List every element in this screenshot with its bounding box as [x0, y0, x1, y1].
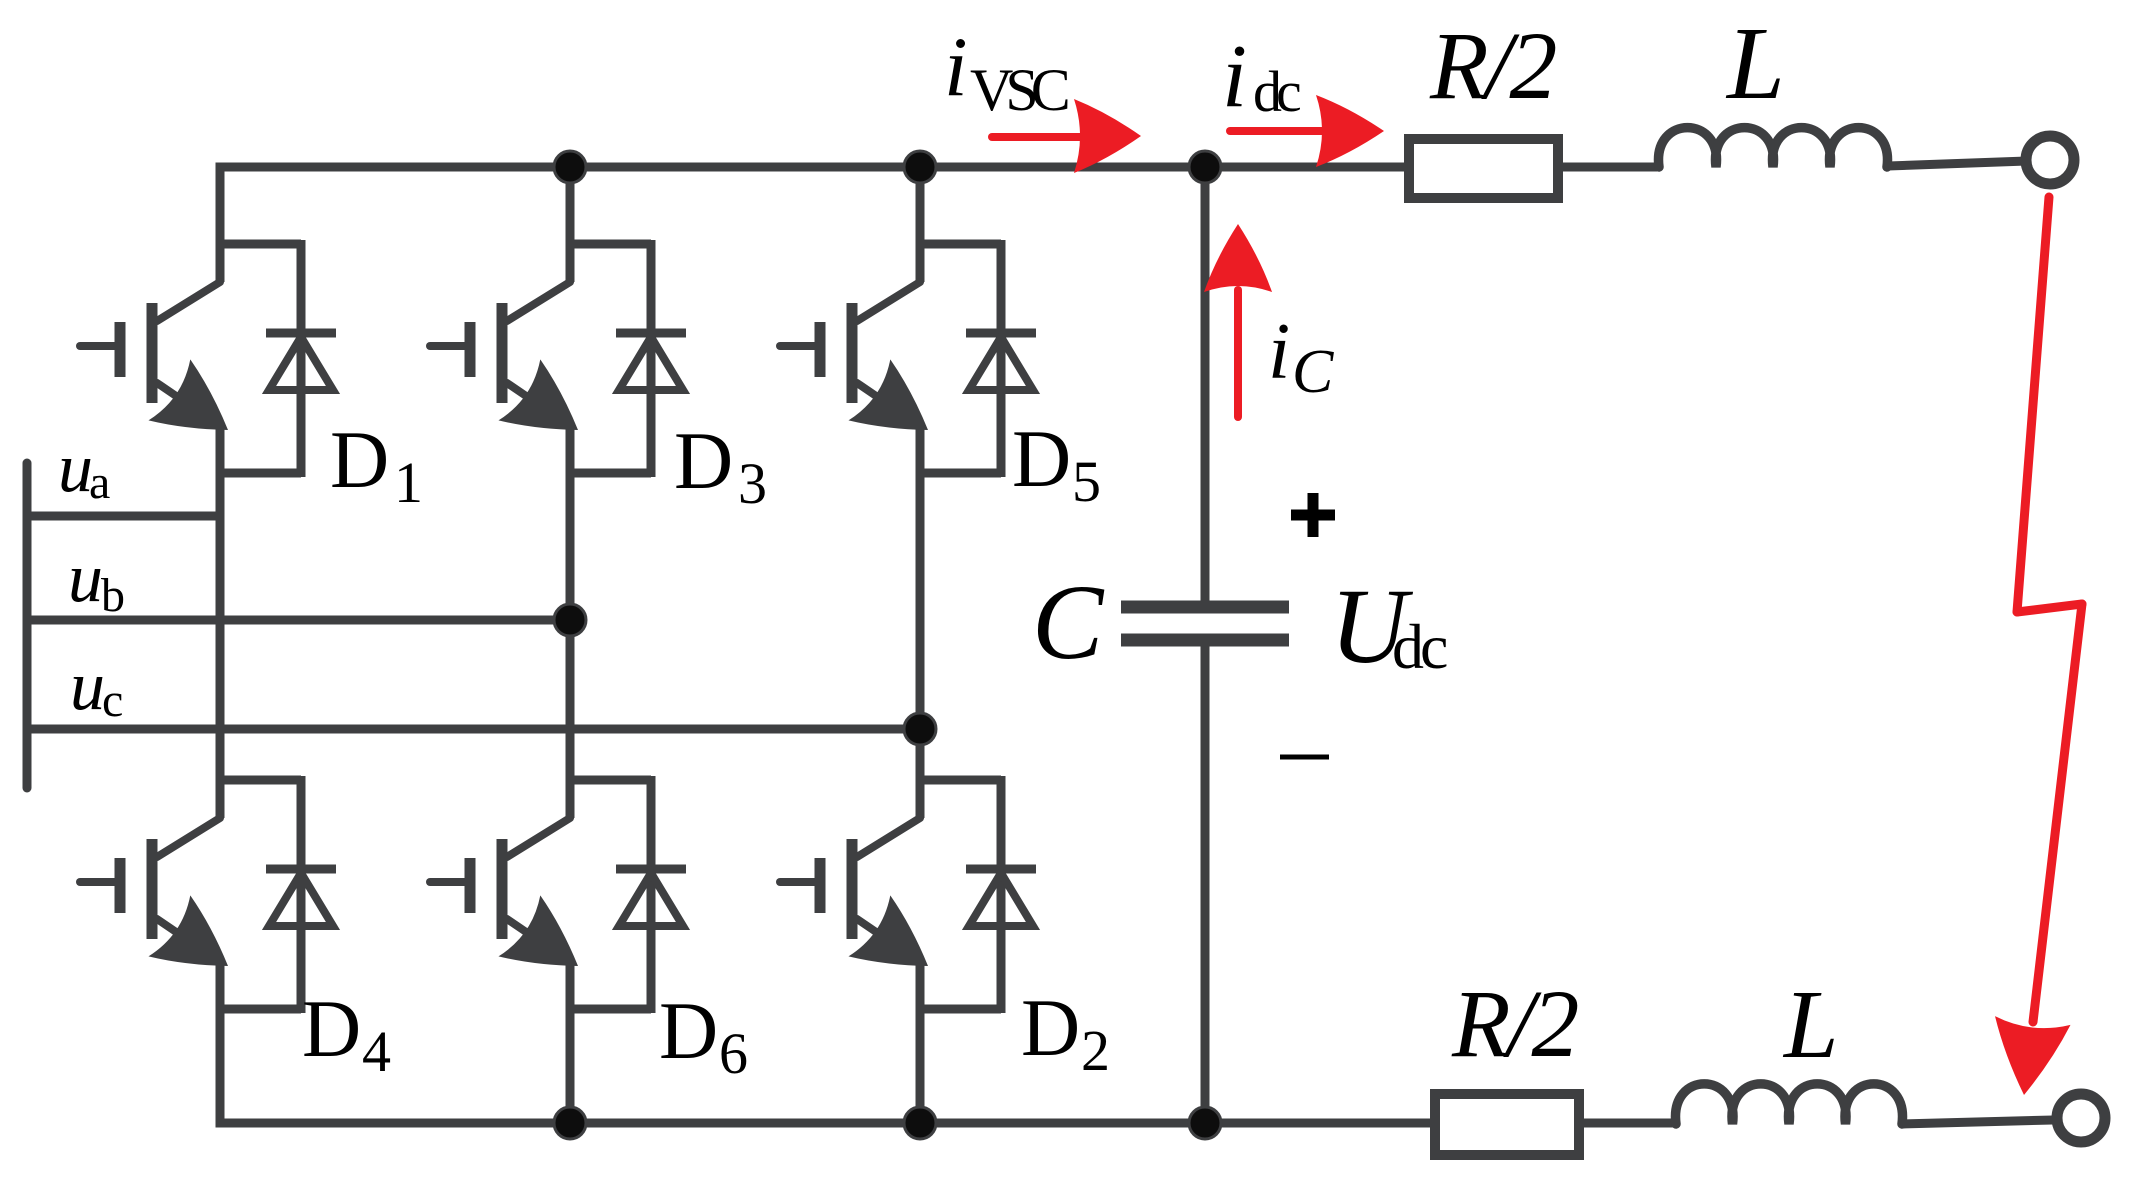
- wire: top rail resistor to inductor: [1563, 163, 1657, 172]
- svg-text:i: i: [1268, 308, 1290, 396]
- svg-text:dc: dc: [1392, 611, 1447, 682]
- label + polarity: [1291, 493, 1335, 537]
- transistor V1 (IGBT): [80, 282, 228, 473]
- wire: leg b upper vertical: [566, 167, 575, 282]
- svg-text:D: D: [330, 414, 389, 505]
- wire: capacitor bottom lead: [1201, 646, 1210, 1123]
- svg-text:D: D: [1021, 982, 1080, 1073]
- current arrow i_VSC: [992, 99, 1141, 173]
- svg-text:2: 2: [1081, 1018, 1110, 1083]
- wire: leg c middle vertical: [916, 473, 925, 818]
- diode D2 (freewheeling): [920, 776, 1036, 1013]
- wire: leg a middle vertical: [216, 473, 225, 818]
- svg-text:D: D: [674, 415, 733, 506]
- svg-text:C: C: [1032, 564, 1105, 682]
- diode D6 (freewheeling): [570, 776, 686, 1013]
- label D5: [1012, 413, 1101, 514]
- transistor V6 (IGBT): [430, 818, 578, 1009]
- junction phase b / leg b: [554, 604, 586, 636]
- svg-text:a: a: [89, 456, 110, 509]
- terminal: DC output +: [2026, 136, 2074, 184]
- svg-text:i: i: [1222, 27, 1247, 126]
- inductor L (bottom): [1676, 1084, 1903, 1124]
- fault arrow: lower stroke with head: [1995, 604, 2082, 1095]
- svg-text:b: b: [101, 569, 125, 622]
- transistor V2 (IGBT): [780, 818, 928, 1009]
- svg-text:5: 5: [1072, 449, 1101, 514]
- junction top rail / leg c: [904, 151, 936, 183]
- wire: bottom inductor to terminal: [1902, 1120, 2053, 1124]
- wire: bottom rail resistor to inductor: [1584, 1119, 1674, 1128]
- fault arrow: middle jog: [2017, 604, 2082, 612]
- wire: top inductor to terminal: [1888, 161, 2027, 166]
- label - polarity: [1280, 755, 1329, 760]
- wire: leg b lower vertical: [566, 1009, 575, 1123]
- resistor R/2 (top): [1409, 139, 1558, 198]
- wire: leg a lower vertical + bottom DC rail: [220, 1009, 1430, 1123]
- svg-text:1: 1: [394, 450, 423, 515]
- wire: phase b line: [27, 616, 570, 625]
- label u_a: [58, 430, 110, 509]
- label i_C: [1268, 308, 1334, 406]
- junction phase c / leg c: [904, 713, 936, 745]
- wire: leg a upper vertical + top DC rail: [220, 167, 1406, 282]
- transistor V5 (IGBT): [780, 282, 928, 473]
- svg-text:u: u: [68, 540, 103, 617]
- svg-text:c: c: [102, 674, 123, 727]
- junction bottom rail / capacitor node: [1189, 1107, 1221, 1139]
- fault arrow: upper stroke: [2017, 197, 2049, 612]
- wire: leg b middle vertical: [566, 473, 575, 818]
- wire: leg c lower vertical: [916, 1009, 925, 1123]
- svg-text:L: L: [1725, 6, 1785, 121]
- wire: three-phase source bus bar: [23, 463, 32, 788]
- diode D3 (freewheeling): [570, 240, 686, 477]
- diode D4 (freewheeling): [220, 776, 336, 1013]
- junction top rail / leg b: [554, 151, 586, 183]
- svg-text:D: D: [1012, 413, 1071, 504]
- label U_dc: [1330, 568, 1447, 686]
- label i_dc: [1222, 27, 1300, 126]
- transistor V4 (IGBT): [80, 818, 228, 1009]
- junction bottom rail / leg b: [554, 1107, 586, 1139]
- transistor V3 (IGBT): [430, 282, 578, 473]
- inductor L (top): [1659, 128, 1888, 167]
- label D1: [330, 414, 423, 515]
- junction bottom rail / leg c: [904, 1107, 936, 1139]
- label D6: [659, 985, 748, 1086]
- label D2: [1021, 982, 1110, 1083]
- capacitor C plate (top): [1121, 601, 1289, 614]
- svg-text:C: C: [1292, 338, 1334, 406]
- label i_VSC: [944, 20, 1068, 123]
- junction top rail / capacitor node: [1189, 151, 1221, 183]
- wire: phase a line: [27, 512, 220, 521]
- label D3: [674, 415, 767, 516]
- label u_c: [70, 648, 123, 727]
- capacitor C plate (bottom): [1121, 634, 1289, 647]
- svg-text:i: i: [944, 20, 968, 114]
- diode D1 (freewheeling): [220, 240, 336, 477]
- terminal: DC output -: [2057, 1094, 2105, 1142]
- svg-text:u: u: [58, 430, 93, 507]
- wire: capacitor top lead: [1201, 167, 1210, 601]
- current arrow i_dc: [1230, 95, 1384, 167]
- svg-text:dc: dc: [1253, 59, 1300, 124]
- svg-text:R/2: R/2: [1451, 970, 1577, 1077]
- resistor R/2 (bottom): [1435, 1094, 1579, 1155]
- svg-text:D: D: [659, 985, 718, 1076]
- label u_b: [68, 540, 125, 622]
- wire: phase c line: [27, 725, 920, 734]
- wire: leg c upper vertical: [916, 167, 925, 282]
- svg-text:VSC: VSC: [970, 57, 1068, 123]
- svg-text:4: 4: [362, 1019, 391, 1084]
- svg-text:D: D: [302, 983, 361, 1074]
- diode D5 (freewheeling): [920, 240, 1036, 477]
- svg-text:L: L: [1782, 971, 1839, 1079]
- svg-text:u: u: [70, 648, 105, 725]
- label D4: [302, 983, 391, 1084]
- svg-text:R/2: R/2: [1429, 12, 1555, 119]
- current arrow i_C: [1204, 224, 1272, 417]
- svg-text:6: 6: [719, 1021, 748, 1086]
- svg-text:3: 3: [738, 451, 767, 516]
